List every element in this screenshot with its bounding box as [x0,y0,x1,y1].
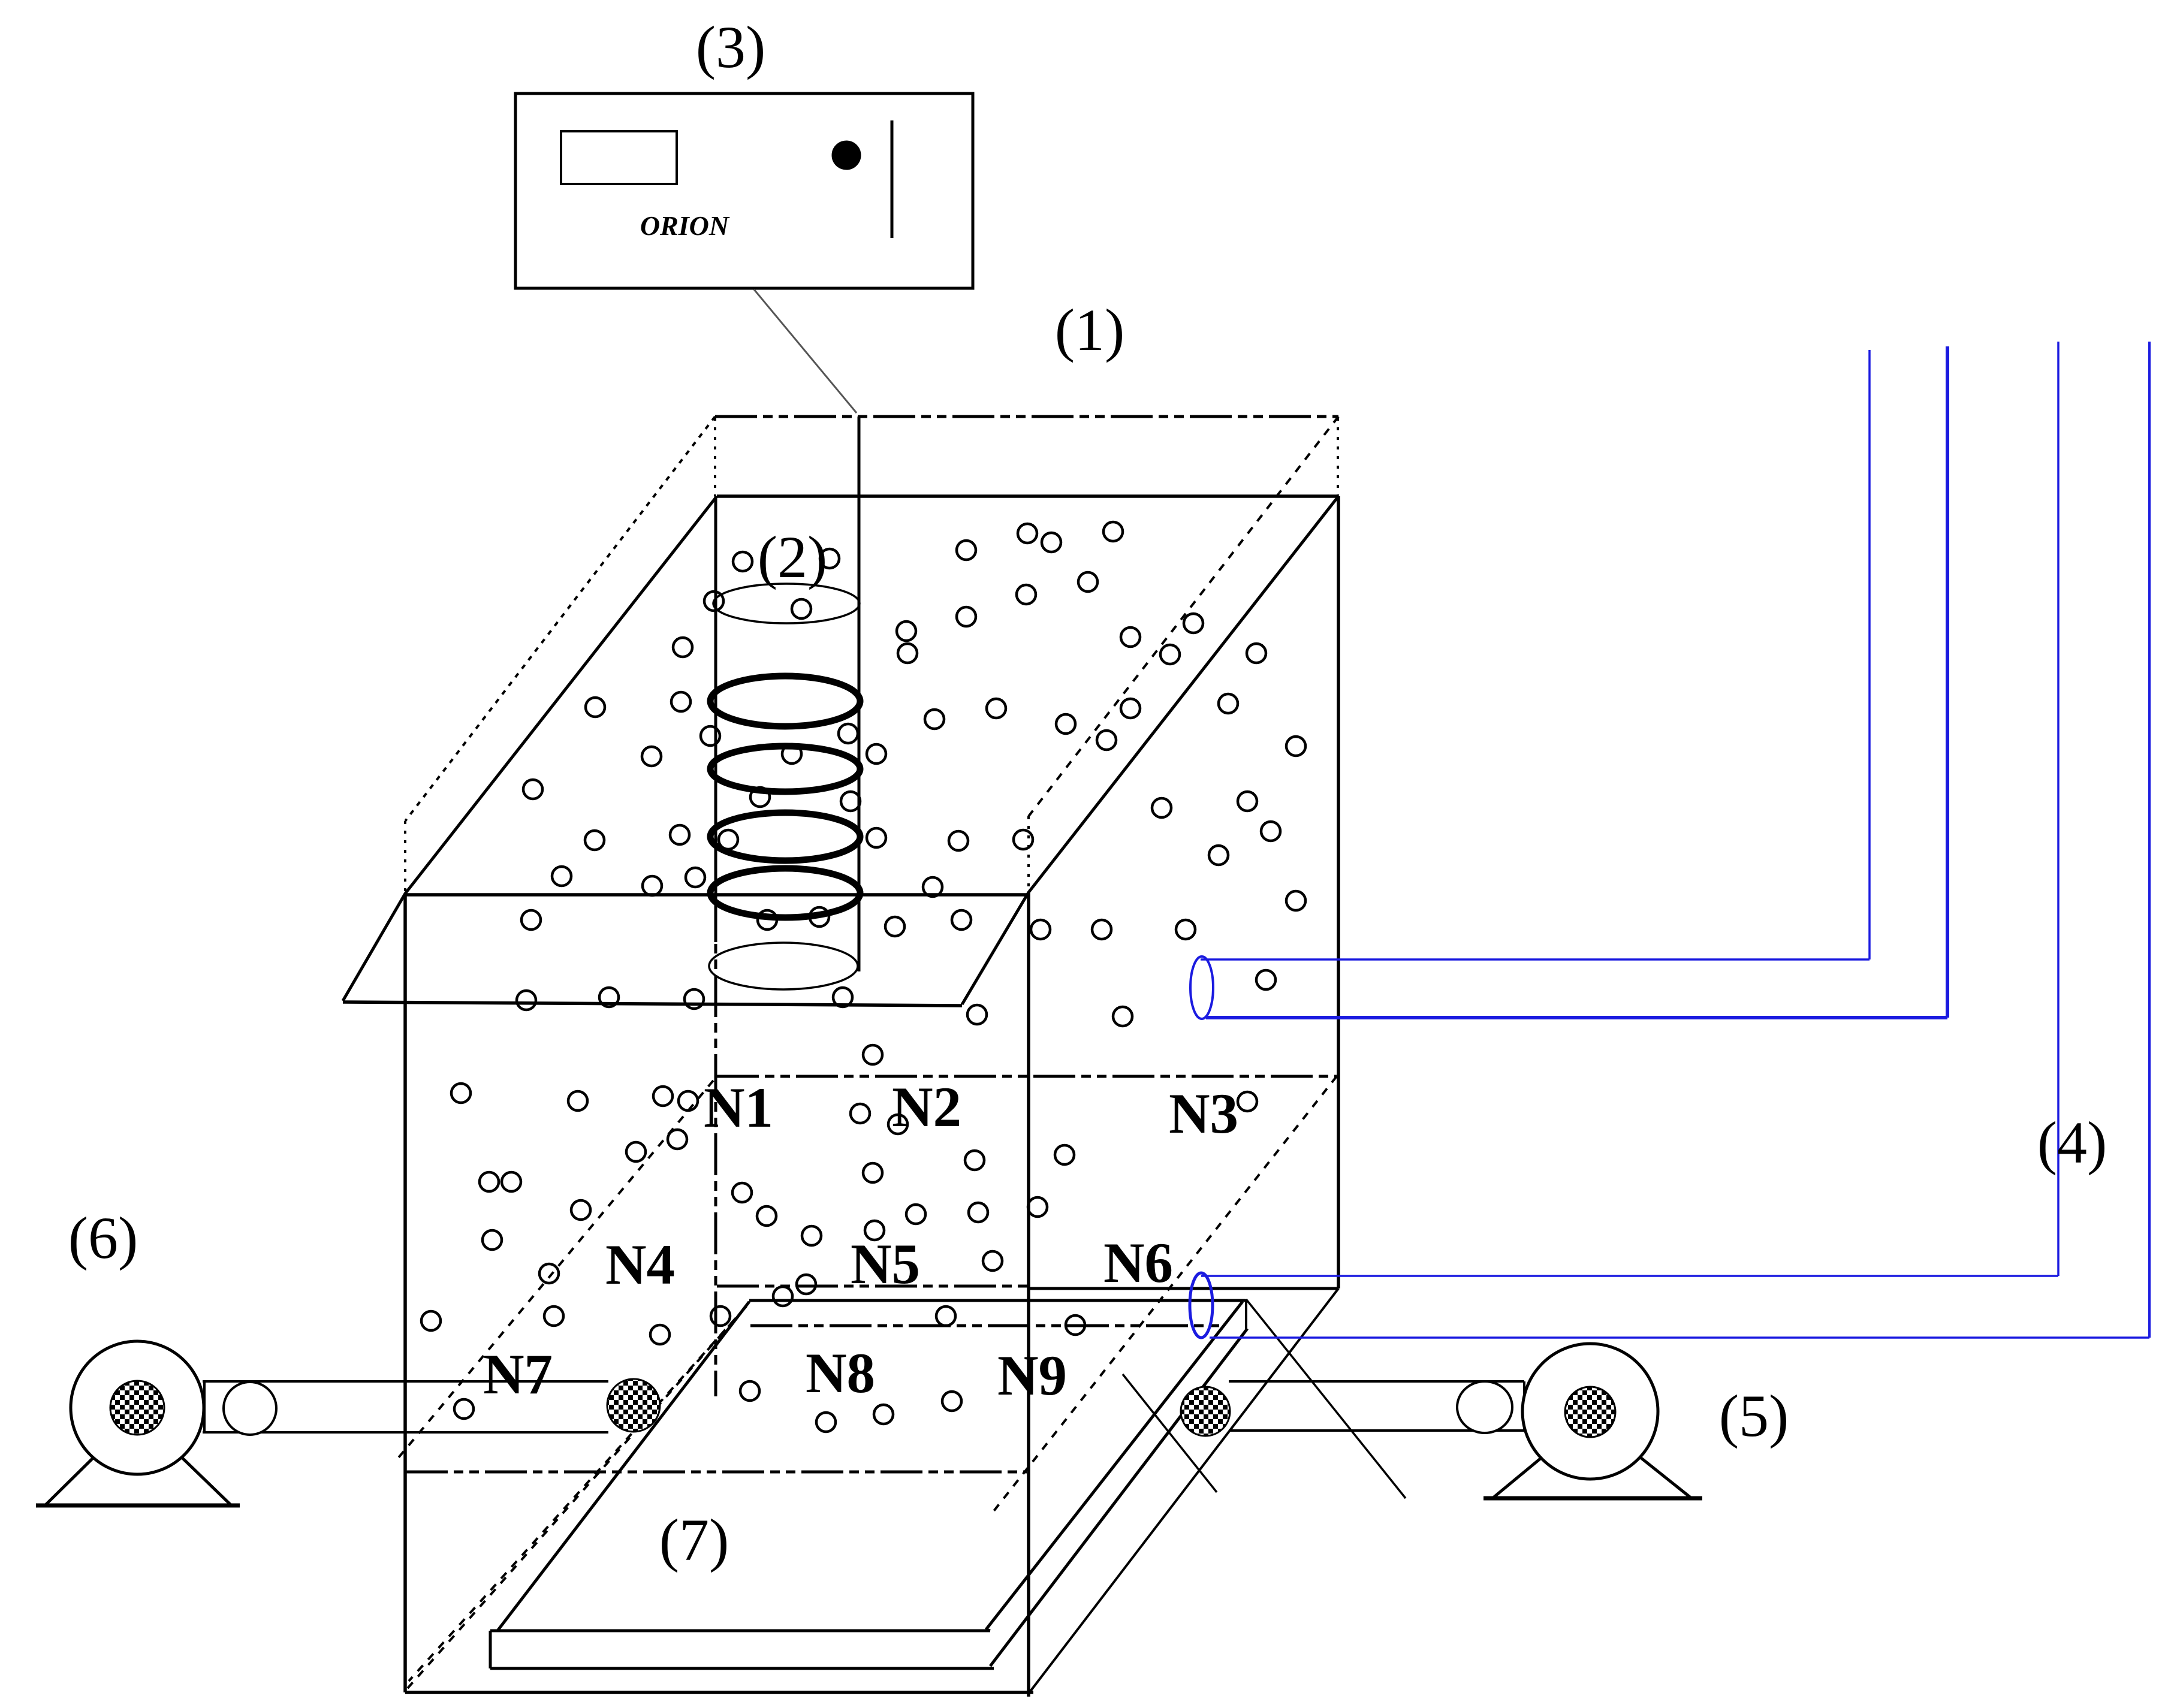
svg-text:N1: N1 [704,1076,773,1139]
tray left end vertical [489,1631,492,1668]
trough lower edge (dash-dot-dot) [750,1324,1219,1327]
inclined plate upper-left edge [497,1302,749,1631]
trough top edge [749,1299,1246,1302]
tank left top rim diagonal (solid) [343,496,717,1001]
tank top left hidden edge (dotted diagonal) [405,417,715,821]
tank inner back top edge (solid) [717,494,1338,498]
tank top left corner (dotted vertical) [404,821,406,893]
tank right top rim diagonal (solid) [962,496,1338,1004]
left motor shaft lines [203,1381,608,1432]
feed pipe 1 riser (thick) [1946,346,1949,1018]
svg-text:(7): (7) [659,1507,729,1573]
bearing at N7 (hatched) [607,1379,660,1432]
trough end diagonal [1246,1299,1406,1498]
feed pipe 2 bottom line [1210,1336,2149,1339]
inclined plate lower right rail [990,1329,1247,1666]
svg-text:(5): (5) [1719,1383,1789,1449]
svg-text:(4): (4) [2037,1109,2107,1176]
wire from meter to column [754,289,857,413]
column left wall [714,496,717,942]
tank right wall bottom diagonal [1030,1288,1338,1691]
right motor stand base [1483,1496,1702,1501]
tank right wall outer vertical edge [1337,496,1340,1288]
bearing at N9 (hatched) [1181,1387,1230,1436]
svg-text:N8: N8 [806,1341,875,1405]
right motor shaft lines [1229,1381,1524,1431]
tank top right rim corner (dotted vertical at back) [1337,418,1339,496]
right motor pulley [1457,1381,1512,1433]
svg-text:N3: N3 [1169,1082,1238,1145]
water plane left hidden edge (dashed diagonal) [396,1081,713,1461]
tray right end edge [986,1629,990,1631]
svg-text:(2): (2) [758,524,828,590]
coil turn 3 [710,813,860,861]
tray front top edge [490,1629,990,1632]
svg-text:(3): (3) [696,14,766,80]
column right wall [858,417,861,971]
svg-text:N4: N4 [605,1233,675,1296]
section line N7 row (dash-dot-dot) [406,1471,1027,1474]
svg-text:N2: N2 [892,1075,961,1139]
left motor pulley [224,1382,276,1435]
coil turn 4 [710,868,860,918]
feed pipe 2 top line [1201,1275,2058,1277]
coil turn 2 [710,746,860,792]
inclined plate hidden left edge (dashed) [409,1306,746,1681]
tank mid front outer edge H3 [343,1002,962,1006]
left motor body [71,1341,204,1474]
inclined plate right edge [986,1302,1243,1629]
tank top left rim corner (dotted vertical at back) [714,418,716,496]
feed pipe 2 mouth ellipse [1190,1273,1213,1338]
tank bottom hidden diagonal (dashed) [408,1306,746,1688]
tank front-left vertical edge [403,894,407,1692]
coil turn 1 [710,676,860,726]
tank mid front inner edge H2 [405,893,1029,897]
feed pipe 1 mouth ellipse [1190,956,1213,1019]
feed pipe 1 top line [1201,958,1870,961]
svg-text:ORION: ORION [640,210,730,241]
trough right end vertical [1245,1299,1247,1329]
tank front-right vertical edge [1027,892,1030,1697]
right motor stand triangle [1492,1417,1691,1498]
tank front bottom edge [405,1691,1033,1694]
column bottom thin ellipse [709,943,858,989]
feed pipe 1 bottom line (thick) [1206,1016,1947,1019]
tank top right hidden edge (dashed diagonal) [1029,417,1338,816]
left motor hub (hatched) [110,1381,164,1435]
left motor stand triangle [45,1414,231,1505]
water plane right hidden edge (dashed diagonal) [992,1076,1337,1513]
section line N1 row (dash-dot-dot) [717,1075,1337,1078]
column top thin ellipse [713,584,860,623]
feed pipe 1 riser (thin) [1868,350,1871,959]
tank top right corner (dotted vertical) [1027,816,1030,892]
svg-text:N9: N9 [997,1344,1067,1407]
tank right wall bottom edge (solid) [1029,1287,1338,1290]
trough end inner diagonal [1123,1374,1217,1492]
feed pipe 2 riser b [2148,342,2151,1338]
right motor hub (hatched) [1565,1387,1615,1437]
svg-text:(6): (6) [68,1205,138,1271]
section line N5 row (dash-dot-dot) [717,1285,1029,1288]
right motor body [1522,1344,1658,1479]
feed pipe 2 riser a [2057,342,2060,1276]
svg-text:N6: N6 [1103,1231,1173,1294]
air bubbles in tank [421,522,1305,1432]
svg-text:N7: N7 [483,1342,553,1406]
svg-text:N5: N5 [851,1232,920,1296]
left motor stand base [36,1504,240,1508]
pH meter box U3 (ORION) [515,93,973,288]
column axis line (dash-dot-dot vertical) [714,896,717,1396]
tray front bottom edge [490,1667,994,1670]
tank top back edge (dash-dot-dot) [715,415,1338,418]
svg-text:(1): (1) [1055,297,1125,363]
